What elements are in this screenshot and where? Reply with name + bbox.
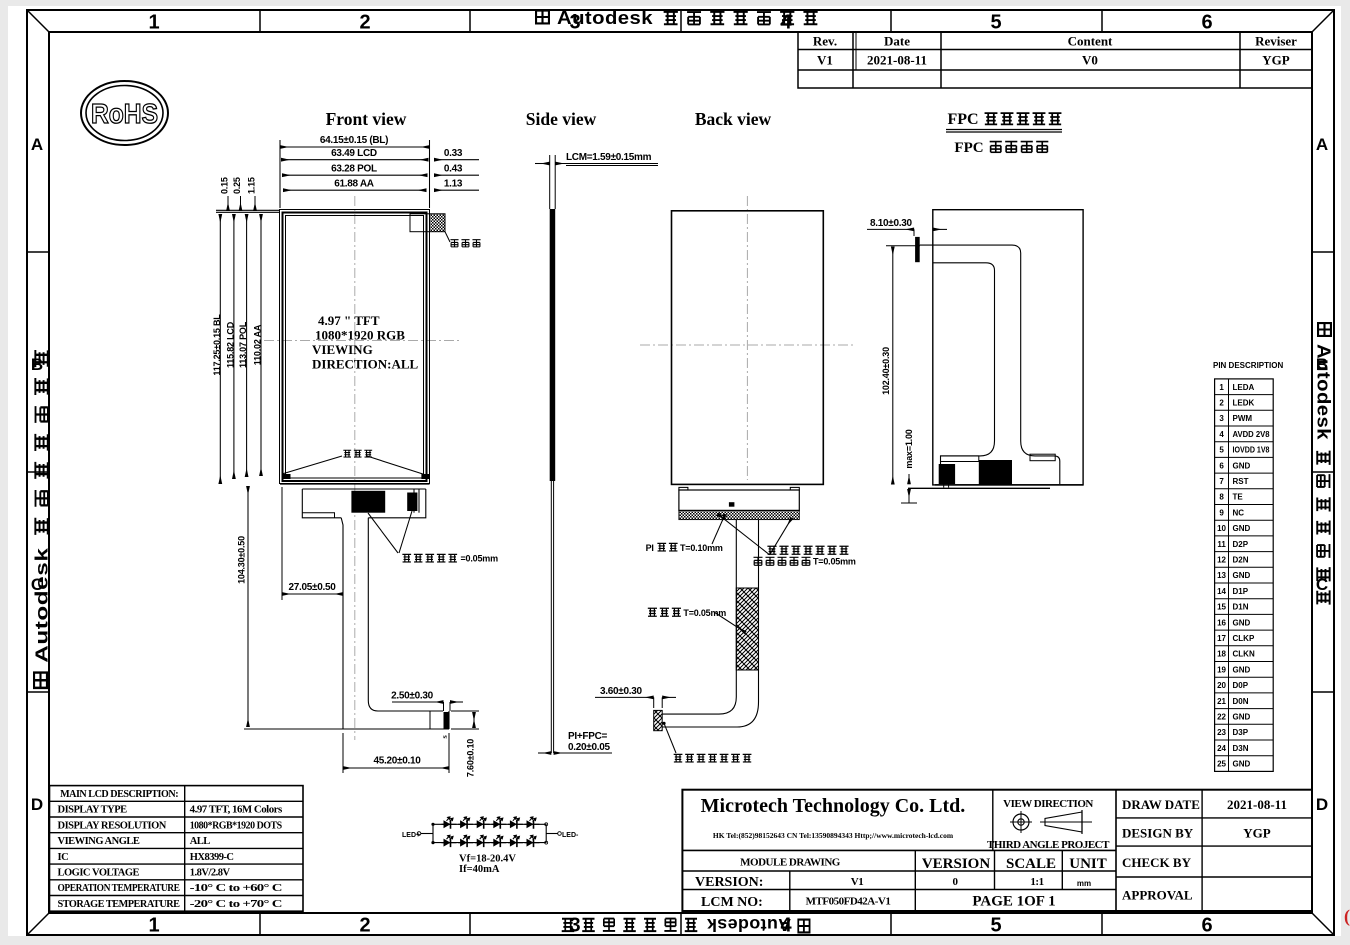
svg-text:Rev.: Rev. [813,34,837,49]
svg-text:FPC: FPC [954,140,983,156]
svg-text:9: 9 [1219,508,1224,517]
svg-text:ALL: ALL [190,836,211,847]
svg-text:LED-: LED- [562,832,579,839]
svg-text:GND: GND [1233,618,1251,627]
svg-text:D1N: D1N [1233,603,1249,612]
svg-text:MAIN LCD DESCRIPTION:: MAIN LCD DESCRIPTION: [60,789,178,800]
svg-text:(: ( [1344,906,1350,927]
svg-text:DESIGN BY: DESIGN BY [1122,826,1194,841]
svg-text:UNIT: UNIT [1069,856,1107,872]
svg-text:VERSION: VERSION [922,856,991,872]
svg-text:1:1: 1:1 [1030,876,1043,888]
svg-text:D2P: D2P [1233,540,1249,549]
svg-text:6: 6 [1201,915,1212,937]
svg-text:If=40mA: If=40mA [459,864,500,875]
svg-text:LCM NO:: LCM NO: [701,895,763,910]
svg-text:IOVDD 1V8: IOVDD 1V8 [1233,446,1270,455]
svg-text:2021-08-11: 2021-08-11 [1227,797,1287,812]
svg-text:D3N: D3N [1233,744,1249,753]
svg-text:Content: Content [1068,34,1113,49]
svg-text:B: B [31,355,43,374]
svg-text:4: 4 [1219,430,1224,439]
svg-text:PWM: PWM [1233,414,1253,423]
svg-text:Front view: Front view [326,109,407,129]
svg-text:CHECK BY: CHECK BY [1122,855,1192,870]
svg-text:18: 18 [1217,650,1226,659]
svg-text:2: 2 [359,12,370,34]
svg-text:RoHS: RoHS [91,98,158,129]
svg-text:IC: IC [58,852,69,863]
svg-text:T=0.05mm: T=0.05mm [683,608,726,618]
svg-text:GND: GND [1233,571,1251,580]
svg-text:63.49 LCD: 63.49 LCD [331,148,377,159]
svg-text:0.20±0.05: 0.20±0.05 [568,742,610,753]
svg-text:5: 5 [990,915,1001,937]
svg-text:MODULE DRAWING: MODULE DRAWING [740,857,841,869]
svg-text:max=1.00: max=1.00 [904,429,914,468]
svg-text:Side view: Side view [526,109,597,129]
svg-text:1.8V/2.8V: 1.8V/2.8V [190,867,231,878]
svg-text:D0P: D0P [1233,681,1249,690]
svg-text:19: 19 [1217,665,1226,674]
svg-text:45.20±0.10: 45.20±0.10 [374,756,422,767]
svg-text:A: A [31,135,43,154]
svg-text:FPC: FPC [947,111,978,128]
svg-text:8.10±0.30: 8.10±0.30 [870,218,912,229]
svg-text:SCALE: SCALE [1006,856,1056,872]
svg-text:3: 3 [1219,414,1224,423]
svg-text:23: 23 [1217,728,1226,737]
svg-text:2021-08-11: 2021-08-11 [867,53,927,68]
svg-text:VIEWING: VIEWING [312,342,373,357]
svg-text:D1P: D1P [1233,587,1249,596]
svg-text:11: 11 [1217,540,1226,549]
svg-text:VERSION:: VERSION: [695,875,763,890]
svg-text:102.40±0.30: 102.40±0.30 [881,347,891,395]
svg-text:DISPLAY RESOLUTION: DISPLAY RESOLUTION [58,820,167,831]
svg-text:10: 10 [1217,524,1226,533]
svg-text:12: 12 [1217,555,1226,564]
svg-text:1: 1 [148,915,159,937]
svg-text:14: 14 [1217,587,1226,596]
svg-text:V1: V1 [851,876,863,888]
svg-text:THIRD ANGLE PROJECT: THIRD ANGLE PROJECT [987,839,1110,851]
svg-text:110.02 AA: 110.02 AA [253,324,263,365]
svg-text:DRAW DATE: DRAW DATE [1122,797,1200,812]
svg-text:8: 8 [1219,493,1224,502]
svg-text:0.25: 0.25 [232,177,242,194]
svg-text:22: 22 [1217,712,1226,721]
svg-text:PAGE 1OF 1: PAGE 1OF 1 [972,894,1055,910]
svg-text:VIEW DIRECTION: VIEW DIRECTION [1003,798,1093,810]
svg-text:Back view: Back view [695,109,772,129]
svg-text:LEDA: LEDA [1233,383,1255,392]
svg-text:117.25±0.15 BL: 117.25±0.15 BL [212,314,222,376]
svg-text:6: 6 [1219,461,1224,470]
svg-text:mm: mm [1077,879,1091,888]
svg-text:13: 13 [1217,571,1226,580]
svg-text:MTF050FD42A-V1: MTF050FD42A-V1 [806,896,891,908]
svg-text:T=0.05mm: T=0.05mm [813,557,856,567]
svg-text:2: 2 [359,915,370,937]
svg-text:NC: NC [1233,508,1245,517]
svg-text:0.43: 0.43 [444,164,463,175]
svg-text:GND: GND [1233,760,1251,769]
svg-text:2: 2 [1219,398,1224,407]
svg-text:25: 25 [1217,760,1226,769]
svg-text:=0.05mm: =0.05mm [461,554,499,564]
svg-text:D2N: D2N [1233,555,1249,564]
svg-text:7.60±0.10: 7.60±0.10 [466,739,476,777]
svg-text:20: 20 [1217,681,1226,690]
svg-text:APPROVAL: APPROVAL [1122,888,1193,903]
svg-text:-10° C to +60° C: -10° C to +60° C [190,883,282,894]
svg-text:1.13: 1.13 [444,179,463,190]
svg-text:GND: GND [1233,461,1251,470]
svg-text:6: 6 [1201,12,1212,34]
svg-text:YGP: YGP [1243,826,1271,841]
svg-text:17: 17 [1217,634,1226,643]
svg-text:TE: TE [1233,493,1244,502]
svg-text:STORAGE TEMPERATURE: STORAGE TEMPERATURE [58,899,180,910]
svg-text:HK Tel:(852)98152643 CN Tel:1: HK Tel:(852)98152643 CN Tel:13590894343 … [713,831,954,840]
svg-text:HX8399-C: HX8399-C [190,852,234,863]
svg-text:5: 5 [1219,446,1224,455]
svg-text:24: 24 [1217,744,1226,753]
svg-text:GND: GND [1233,712,1251,721]
svg-text:63.28 POL: 63.28 POL [331,164,377,175]
svg-text:2.50±0.30: 2.50±0.30 [391,691,433,702]
svg-text:D0N: D0N [1233,697,1249,706]
svg-text:YGP: YGP [1262,53,1290,68]
svg-text:27.05±0.50: 27.05±0.50 [289,582,337,593]
svg-text:1: 1 [1219,383,1224,392]
svg-text:PI+FPC=: PI+FPC= [568,731,607,742]
svg-text:GND: GND [1233,524,1251,533]
svg-text:0.33: 0.33 [444,148,463,159]
svg-text:1080*RGB*1920 DOTS: 1080*RGB*1920 DOTS [190,820,283,831]
svg-text:Reviser: Reviser [1255,34,1297,49]
svg-text:AVDD 2V8: AVDD 2V8 [1233,430,1271,439]
svg-text:115.82 LCD: 115.82 LCD [225,321,235,368]
svg-text:Vf=18-20.4V: Vf=18-20.4V [459,854,516,865]
svg-text:DISPLAY TYPE: DISPLAY TYPE [58,805,128,816]
svg-text:1.15: 1.15 [247,177,257,194]
svg-text:104.30±0.50: 104.30±0.50 [237,536,247,584]
svg-text:61.88 AA: 61.88 AA [334,179,374,190]
svg-text:1080*1920 RGB: 1080*1920 RGB [315,328,405,343]
svg-text:LOGIC VOLTAGE: LOGIC VOLTAGE [58,867,140,878]
svg-text:15: 15 [1217,603,1226,612]
svg-text:PIN DESCRIPTION: PIN DESCRIPTION [1213,361,1283,370]
svg-text:OPERATION TEMPERATURE: OPERATION TEMPERATURE [58,883,180,894]
svg-text:V1: V1 [817,53,833,68]
svg-text:LEDK: LEDK [1233,398,1255,407]
svg-text:Microtech Technology Co. Ltd.: Microtech Technology Co. Ltd. [701,795,966,817]
svg-text:4.97 TFT, 16M Colors: 4.97 TFT, 16M Colors [190,805,282,816]
svg-text:PI: PI [646,543,654,553]
svg-text:4.97 " TFT: 4.97 " TFT [318,313,380,328]
svg-text:113.07 POL: 113.07 POL [238,321,248,368]
svg-text:D3P: D3P [1233,728,1249,737]
svg-text:Date: Date [884,34,910,49]
svg-text:0: 0 [953,876,959,888]
svg-text:VIEWING ANGLE: VIEWING ANGLE [58,836,140,847]
svg-text:-20° C to +70° C: -20° C to +70° C [190,899,282,910]
svg-text:DIRECTION:ALL: DIRECTION:ALL [312,357,419,372]
svg-text:GND: GND [1233,665,1251,674]
svg-text:0.15: 0.15 [220,177,230,194]
svg-text:64.15±0.15 (BL): 64.15±0.15 (BL) [320,135,388,146]
svg-text:3.60±0.30: 3.60±0.30 [600,686,642,697]
svg-text:T=0.10mm: T=0.10mm [680,543,723,553]
svg-text:S: S [443,735,449,739]
svg-text:A: A [1316,135,1328,154]
svg-text:V0: V0 [1082,53,1098,68]
svg-text:D: D [1316,795,1328,814]
svg-text:16: 16 [1217,618,1226,627]
svg-text:7: 7 [1219,477,1224,486]
svg-text:D: D [31,795,43,814]
svg-text:21: 21 [1217,697,1226,706]
svg-text:CLKN: CLKN [1233,650,1255,659]
svg-text:CLKP: CLKP [1233,634,1255,643]
svg-text:5: 5 [990,12,1001,34]
svg-text:1: 1 [148,12,159,34]
svg-text:RST: RST [1233,477,1249,486]
svg-text:LCM=1.59±0.15mm: LCM=1.59±0.15mm [566,152,652,163]
